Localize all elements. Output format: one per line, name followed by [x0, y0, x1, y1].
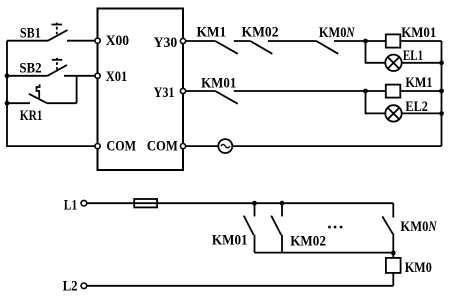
terminal L2: [81, 283, 87, 289]
wire Y30 row: [186, 40, 216, 42]
wire coil to L2: [392, 273, 394, 286]
AC source: [218, 139, 232, 153]
contact KM0N bottom: [382, 203, 393, 253]
wire Y31 row: [186, 90, 216, 92]
contact KM02: [250, 41, 316, 54]
contact KM01: [215, 91, 365, 104]
svg-text:KM0: KM0: [400, 219, 428, 235]
wire right rail: [441, 41, 443, 146]
svg-text:KM01: KM01: [401, 25, 436, 41]
wire EL1 branch: [366, 41, 386, 63]
svg-text:KM01: KM01: [212, 232, 248, 248]
lamp EL1: [385, 55, 401, 71]
svg-text:KM1: KM1: [197, 25, 227, 41]
contact KM0N: [316, 41, 365, 54]
wire COM right row: [186, 145, 219, 147]
coil KM0: [386, 258, 401, 273]
svg-text:KR1: KR1: [20, 108, 43, 124]
svg-text:COM: COM: [147, 139, 178, 155]
svg-text:X00: X00: [106, 33, 129, 49]
svg-text:COM: COM: [107, 139, 137, 155]
junction dot Y31 branch: [363, 89, 368, 94]
wire to coil KM01: [366, 40, 386, 42]
svg-text:X01: X01: [106, 69, 128, 85]
svg-text:KM02: KM02: [290, 234, 326, 250]
pushbutton SB2: [7, 58, 95, 76]
contact KM02 bottom: [271, 203, 282, 252]
svg-text:KM0: KM0: [319, 25, 347, 41]
svg-text:EL2: EL2: [405, 99, 428, 115]
svg-text:SB2: SB2: [19, 61, 41, 77]
wire bus to coil: [392, 253, 394, 258]
wire L1 to fuse: [87, 202, 135, 204]
junction dot KM02 top: [280, 201, 285, 206]
junction dot EL2 rail: [439, 111, 444, 116]
svg-text:SB1: SB1: [20, 25, 41, 41]
svg-text:EL1: EL1: [403, 48, 423, 64]
wire to coil KM1: [366, 90, 386, 92]
contact KM01 bottom: [244, 203, 255, 252]
wire AC source to rail: [232, 145, 441, 147]
wire bottom bus: [255, 252, 394, 254]
svg-text:Y30: Y30: [154, 35, 178, 51]
pushbutton SB1: [7, 23, 95, 41]
svg-text:L2: L2: [63, 278, 78, 294]
junction dot EL1 rail: [439, 60, 444, 65]
svg-text:KM1: KM1: [405, 75, 432, 91]
junction dot SB2 row: [5, 73, 10, 78]
thermal relay contact KR1: [7, 76, 77, 103]
wire L2: [87, 285, 394, 287]
coil KM1: [386, 85, 401, 98]
junction dot KR1 row: [5, 101, 10, 106]
terminal X00: [95, 38, 100, 43]
terminal COM left: [95, 144, 100, 149]
junction dot Y30 branch: [363, 39, 368, 44]
contact KM1: [215, 41, 250, 54]
label KM0N bottom: [400, 219, 437, 235]
coil KM01: [386, 34, 401, 47]
svg-text:L1: L1: [64, 197, 77, 213]
ellipsis dots: [328, 226, 342, 229]
PLC box: [98, 9, 184, 171]
terminal X01: [95, 73, 100, 78]
terminal Y30: [180, 38, 185, 43]
terminal Y31: [180, 88, 185, 93]
label KM0N: [319, 25, 355, 41]
wire coil KM01 to rail: [400, 40, 441, 42]
terminal COM right: [180, 144, 185, 149]
junction dot KM01 top: [252, 201, 257, 206]
junction dot coil top: [391, 251, 396, 256]
wire lamp EL2 to rail: [402, 112, 442, 114]
wire lamp EL1 to rail: [402, 62, 442, 64]
wire coil KM1 to rail: [400, 90, 441, 92]
wire L1 bus: [157, 202, 393, 204]
svg-text:Y31: Y31: [154, 85, 175, 101]
wire EL2 branch: [366, 91, 386, 113]
terminal L1: [81, 200, 87, 206]
wire left rail: [7, 41, 95, 146]
svg-text:KM02: KM02: [242, 25, 279, 41]
lamp EL2: [385, 105, 401, 121]
svg-text:KM0: KM0: [405, 260, 432, 276]
svg-text:N: N: [428, 219, 437, 235]
junction dot KM1 rail: [439, 89, 444, 94]
svg-text:KM01: KM01: [201, 75, 236, 91]
fuse FU: [134, 199, 157, 207]
svg-text:N: N: [346, 25, 355, 41]
